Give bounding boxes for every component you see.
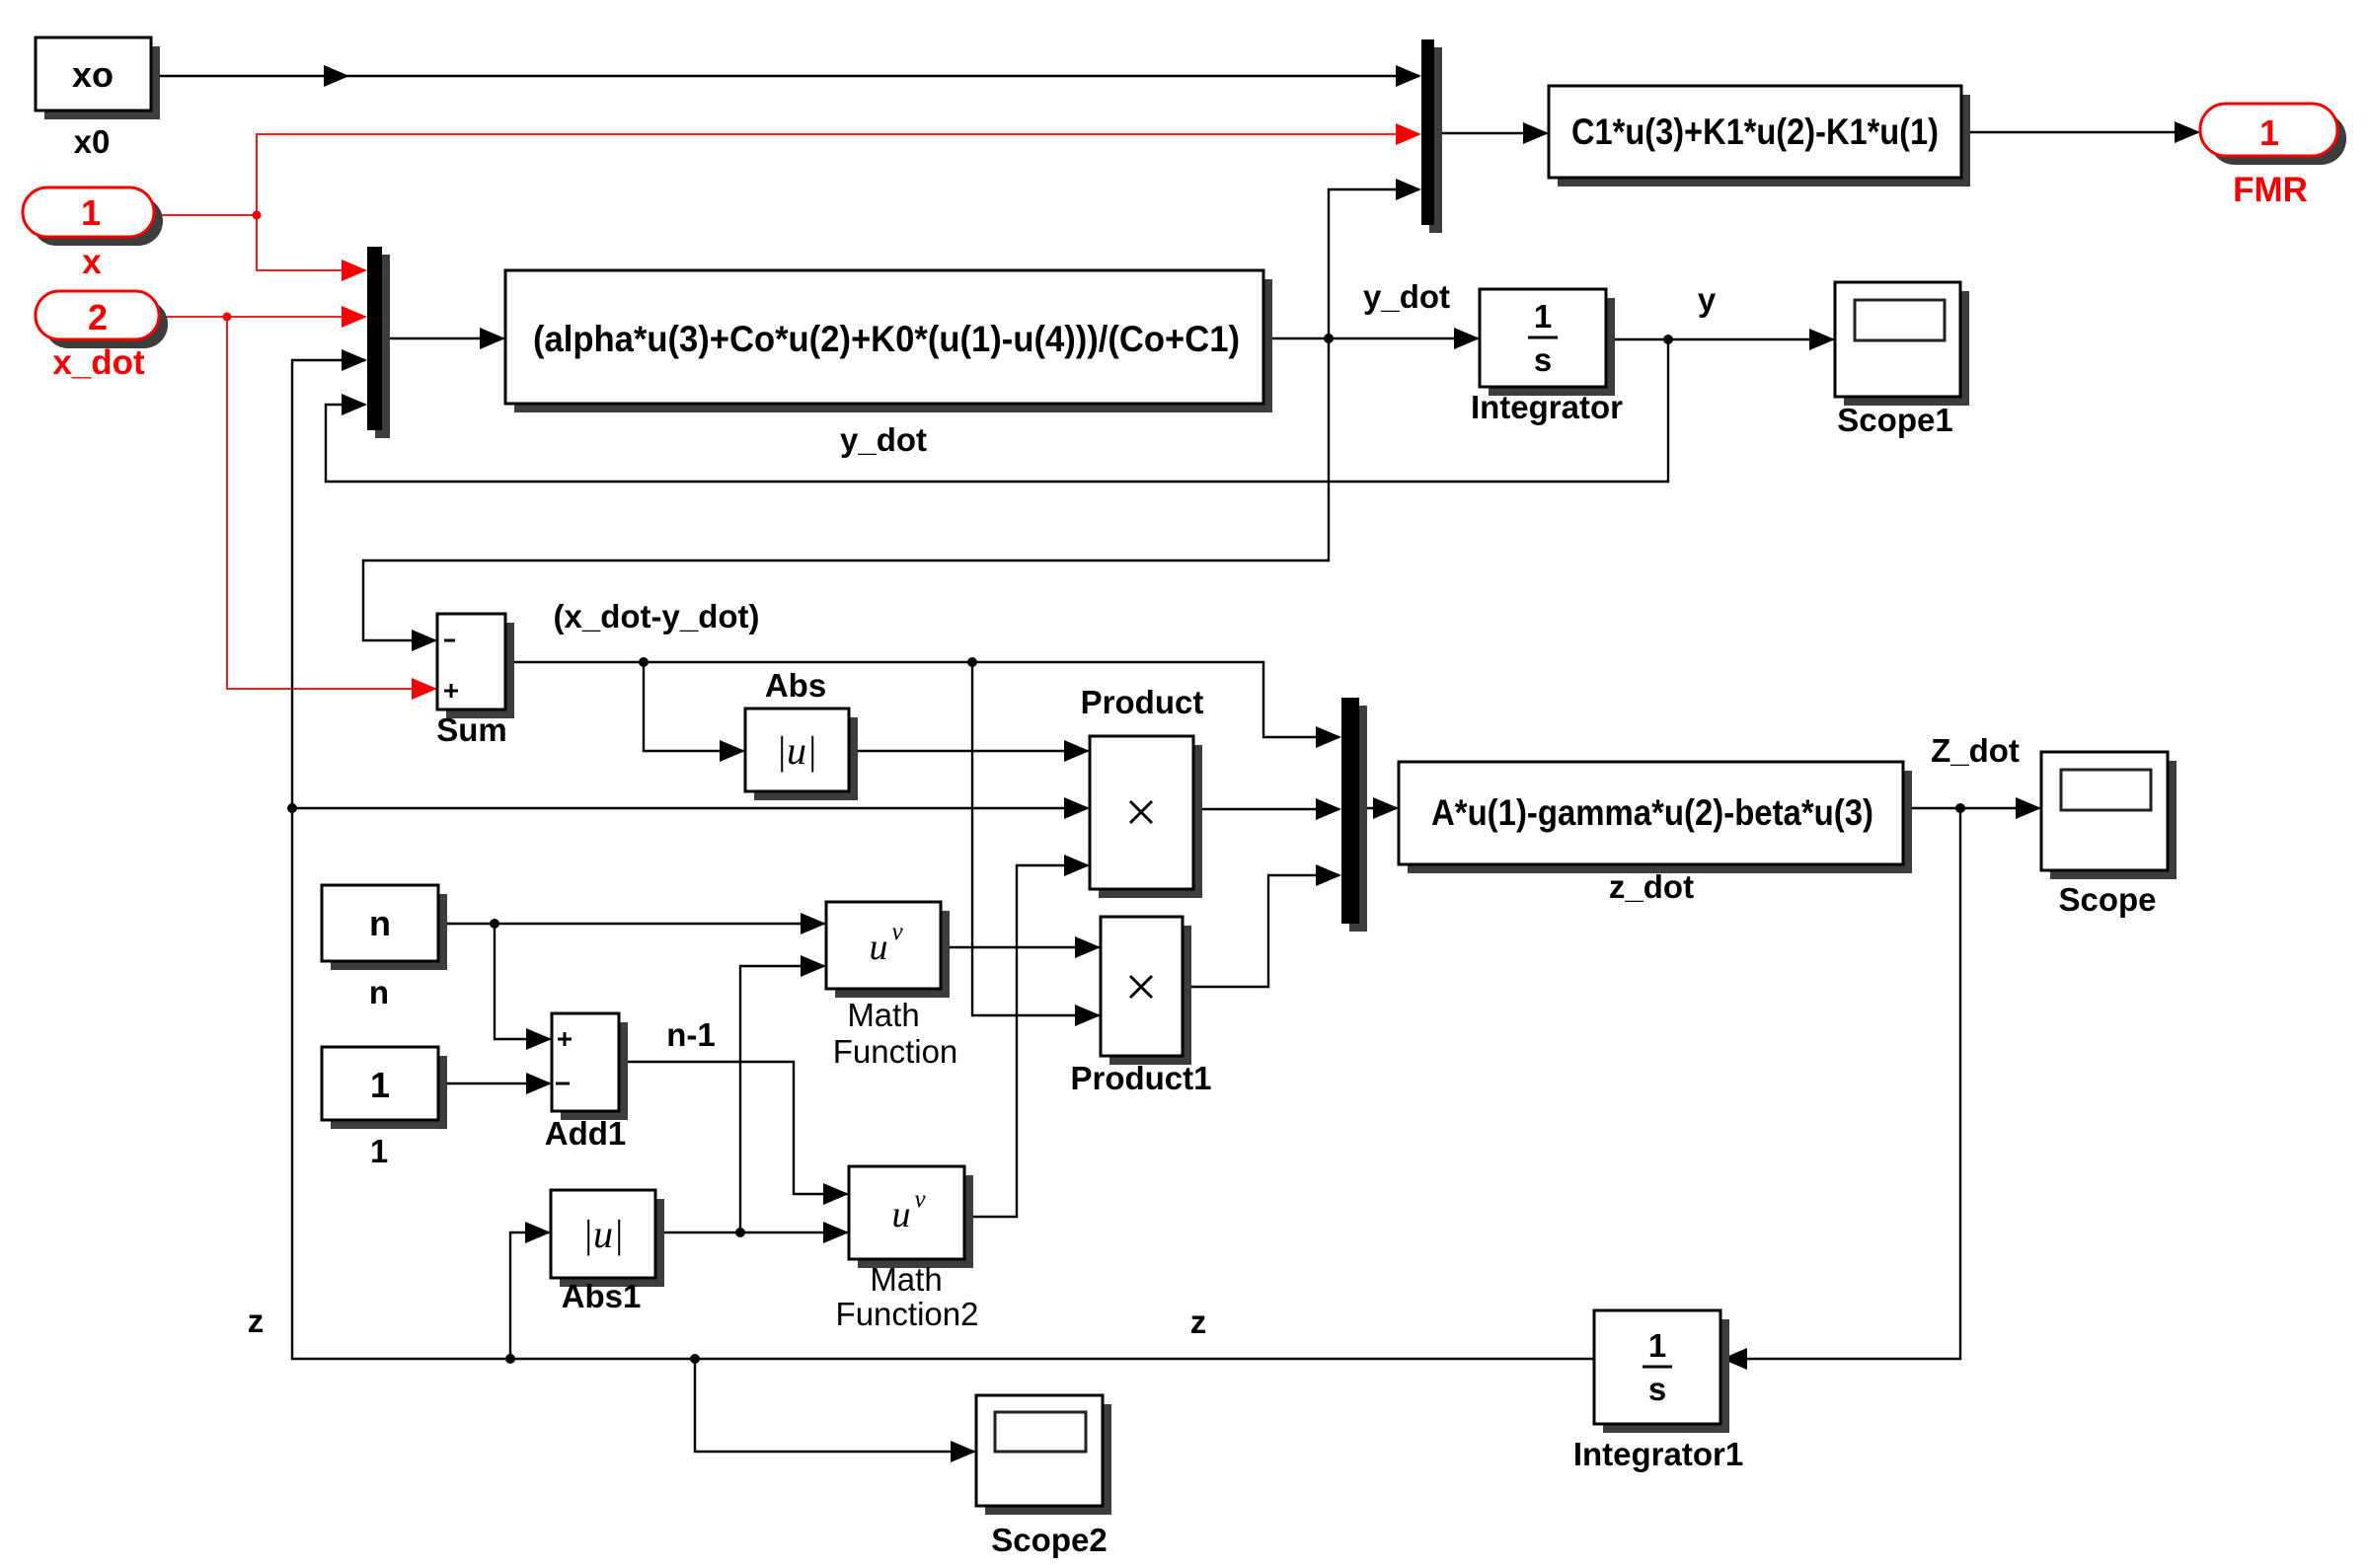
wire Mux2 output to z_dot expression block	[1359, 807, 1397, 809]
wire y_dot junction up to Mux top port3	[1329, 189, 1419, 338]
arrow xo wire into Mux top port1	[1396, 65, 1421, 87]
red arrow x_dot into Sum plus	[412, 678, 437, 700]
svg-text:1: 1	[1648, 1327, 1666, 1364]
wire Product1 output up to Mux2 port3	[1183, 875, 1339, 987]
arrow abs(z) into Math Function2 port2	[823, 1222, 849, 1243]
svg-text:z: z	[248, 1303, 265, 1339]
arrow y_dot into Mux top port3	[1396, 179, 1421, 200]
wire Abs1 junction up to Math Function port2	[740, 966, 824, 1232]
inport 2 (x_dot)	[36, 291, 168, 348]
arrow Math Function out into Product1 port1	[1075, 936, 1101, 958]
wire Add1 output n-1 to Math Function2 port1	[619, 1062, 847, 1194]
svg-text:n: n	[369, 903, 391, 943]
wire z junction right to Product port2	[292, 807, 1088, 809]
math function block Math Function2	[849, 1166, 973, 1268]
wire x_dot junction to Mux1 port2	[227, 316, 365, 318]
scope block Scope1	[1835, 282, 1969, 406]
arrow y_dot into Integrator	[1454, 328, 1480, 349]
arrow Product out into Mux2 port2	[1316, 798, 1341, 820]
wire x_dot inport to junction	[159, 316, 227, 318]
arrow Mux1 output into y_dot block	[480, 328, 505, 349]
svg-text:y_dot: y_dot	[1363, 278, 1450, 315]
arrow into Product1 port2	[1075, 1005, 1101, 1026]
arrow Abs out into Product port1	[1064, 740, 1090, 762]
junction z to Product port2	[287, 803, 297, 813]
svg-text:Scope1: Scope1	[1837, 402, 1952, 438]
svg-text:Integrator1: Integrator1	[1573, 1436, 1743, 1472]
svg-text:v: v	[891, 919, 903, 945]
svg-text:Math: Math	[847, 997, 919, 1033]
junction abs(z) split	[735, 1228, 745, 1237]
junction y_dot split	[1324, 334, 1334, 343]
svg-text:z_dot: z_dot	[1609, 868, 1694, 905]
arrow into FMR outport	[2175, 121, 2200, 143]
arrow Mux top output into C1 block	[1523, 122, 1549, 144]
constant block xo	[36, 37, 160, 119]
svg-text:Add1: Add1	[545, 1115, 627, 1152]
constant block n	[322, 885, 447, 970]
wire z_dot block output to Scope	[1903, 807, 2039, 809]
wire Mux top output to C1 expression block	[1434, 132, 1547, 134]
svg-text:x: x	[82, 243, 102, 281]
wire xo to Mux top port1	[151, 75, 1419, 77]
svg-text:Scope2: Scope2	[991, 1522, 1107, 1558]
red arrow x into Mux1 port1	[342, 260, 367, 281]
svg-text:Abs: Abs	[765, 667, 826, 704]
svg-text:Integrator: Integrator	[1471, 389, 1623, 425]
wire y junction feedback to Mux1 port4	[326, 339, 1668, 482]
svg-text:y: y	[1698, 281, 1717, 318]
svg-text:|u|: |u|	[776, 728, 817, 773]
svg-text:1: 1	[1534, 298, 1552, 335]
expression block y_dot	[505, 270, 1272, 412]
wire z junction down to Scope2	[695, 1359, 974, 1452]
red junction x_dot split	[223, 313, 232, 322]
wire y_dot block output to Integrator	[1263, 337, 1478, 339]
arrow z into Abs1	[525, 1222, 551, 1243]
arrow z_dot into Scope	[2016, 797, 2041, 819]
product block Product1	[1101, 917, 1191, 1065]
svg-text:Math: Math	[870, 1261, 942, 1298]
svg-text:C1*u(3)+K1*u(2)-K1*u(1): C1*u(3)+K1*u(2)-K1*u(1)	[1571, 112, 1939, 152]
svg-text:Sum: Sum	[436, 711, 507, 748]
red arrow x_dot into Mux1 port2	[342, 306, 367, 328]
math function block Math Function	[826, 902, 950, 998]
arrow z into Scope2	[951, 1441, 976, 1462]
svg-text:Product1: Product1	[1070, 1060, 1211, 1096]
ARROWHEADS	[324, 65, 2200, 1462]
svg-text:y_dot: y_dot	[840, 421, 927, 458]
svg-text:z: z	[1190, 1304, 1207, 1340]
junction (x_dot-y_dot) to Abs	[639, 657, 649, 667]
wire Mux1 output to y_dot expression block	[382, 337, 503, 339]
arrow (x_dot-y_dot) into Abs	[720, 740, 745, 762]
svg-text:u: u	[892, 1194, 911, 1235]
wire n junction down to Add1 plus input	[495, 924, 550, 1039]
svg-text:Product: Product	[1081, 684, 1204, 720]
svg-text:n: n	[369, 974, 389, 1010]
arrow y into Mux1 port4	[342, 394, 367, 415]
arrow n into Add1 plus	[526, 1028, 552, 1050]
sum block Sum	[437, 614, 514, 718]
abs block Abs1	[551, 1190, 664, 1287]
inport 1 (x)	[23, 187, 163, 246]
arrow (x_dot-y_dot) into Mux2 port1	[1316, 726, 1341, 748]
wire Abs output to Product port1	[849, 750, 1088, 752]
sum block Add1	[552, 1013, 628, 1120]
arrow z into Mux1 port3	[342, 349, 367, 371]
expression block z_dot	[1399, 762, 1912, 873]
svg-text:1: 1	[370, 1065, 390, 1105]
junction z to Abs1	[505, 1354, 515, 1364]
scope block Scope	[2041, 752, 2177, 879]
wire junction down to Abs input	[644, 662, 743, 751]
wire y_dot junction down and left to Sum minus input	[363, 338, 1329, 640]
svg-text:n-1: n-1	[666, 1016, 716, 1053]
svg-text:Z_dot: Z_dot	[1931, 732, 2020, 769]
integrator block Integrator	[1480, 289, 1615, 396]
arrow y into Scope1	[1809, 329, 1835, 350]
mux Mux2 (feeds z_dot block)	[1341, 698, 1367, 932]
arrow n into Math Function port1	[801, 913, 826, 934]
red junction x split	[253, 211, 262, 220]
svg-text:x0: x0	[74, 123, 111, 160]
junction z_dot split	[1955, 803, 1965, 813]
red arrow x into Mux top port2	[1396, 123, 1421, 145]
expression block C1*u(3)+K1*u(2)-K1*u(1)	[1549, 86, 1970, 187]
wire x inport to junction	[154, 214, 257, 216]
mux Mux (top, feeds C1 block)	[1421, 39, 1442, 233]
scope block Scope2	[976, 1395, 1111, 1515]
arrow z into Product port2	[1064, 797, 1090, 819]
wire Abs1 output to Math Function2 port2	[655, 1232, 847, 1233]
svg-text:v: v	[914, 1186, 926, 1213]
arrow Mux2 out into z_dot block	[1373, 797, 1399, 819]
wire z_dot junction down to Integrator1 input	[1723, 808, 1960, 1359]
wire Math Function output to Product1 port1	[941, 946, 1099, 948]
svg-text:1: 1	[81, 192, 101, 233]
wire Integrator output y to Scope1	[1606, 338, 1833, 340]
svg-text:(x_dot-y_dot): (x_dot-y_dot)	[554, 598, 760, 635]
wire Product output to Mux2 port2	[1193, 808, 1339, 810]
svg-text:1: 1	[2259, 112, 2279, 153]
svg-text:Scope: Scope	[2058, 881, 2156, 918]
arrow y_dot loop into Sum minus	[412, 630, 437, 651]
junction y split	[1663, 335, 1673, 344]
constant block 1	[322, 1047, 447, 1129]
svg-text:Abs1: Abs1	[562, 1278, 642, 1314]
svg-text:Function: Function	[833, 1033, 958, 1070]
arrow abs(z) into Math Function port2	[801, 955, 826, 977]
junction z to Scope2	[690, 1354, 700, 1364]
svg-text:xo: xo	[72, 54, 114, 95]
wire x_dot junction down to Sum plus input	[227, 317, 435, 689]
svg-text:Function2: Function2	[836, 1296, 979, 1332]
arrow n-1 into Math Function2 port1	[823, 1183, 849, 1205]
integrator block Integrator1	[1594, 1310, 1729, 1433]
junction (x_dot-y_dot) to Product1	[967, 657, 977, 667]
junction n split	[490, 919, 499, 929]
arrow z_dot into Integrator1 right side	[1721, 1348, 1747, 1370]
svg-text:|u|: |u|	[582, 1212, 624, 1256]
svg-text:FMR: FMR	[2233, 171, 2308, 209]
wire constant 1 block to Add1 minus input	[438, 1083, 550, 1084]
wire z junction up to Abs1 input	[510, 1232, 549, 1359]
svg-text:1: 1	[370, 1133, 388, 1169]
wire junction down to Product1 port2	[972, 661, 1099, 1015]
svg-text:(alpha*u(3)+Co*u(2)+K0*(u(1)-u: (alpha*u(3)+Co*u(2)+K0*(u(1)-u(4)))/(Co+…	[533, 319, 1240, 359]
wire z from Integrator1 output left to Mux1 port3	[292, 360, 1594, 1359]
svg-text:x_dot: x_dot	[52, 343, 145, 382]
wire x junction up to Mux top port2	[257, 134, 1419, 215]
product block Product	[1090, 736, 1202, 898]
wire Sum output (x_dot-y_dot) to corner and Mux2 port1	[505, 662, 1339, 737]
arrow mid of xo wire	[324, 65, 349, 87]
arrow MathFunction2 out into Product port3	[1064, 855, 1090, 876]
mux Mux1 (feeds y_dot block)	[367, 247, 390, 438]
wire x junction down to Mux1 port1	[257, 215, 365, 270]
svg-text:u: u	[870, 927, 888, 968]
wire Math Function2 output up to Product port3	[964, 865, 1088, 1217]
wire C1 expression block to FMR outport	[1961, 131, 2198, 133]
outport 1 (FMR)	[2200, 104, 2346, 165]
svg-text:2: 2	[88, 297, 108, 337]
svg-text:A*u(1)-gamma*u(2)-beta*u(3): A*u(1)-gamma*u(2)-beta*u(3)	[1431, 792, 1873, 833]
abs block Abs	[745, 709, 858, 800]
svg-text:s: s	[1648, 1371, 1666, 1407]
arrow Product1 out into Mux2 port3	[1316, 864, 1341, 886]
arrow 1 into Add1 minus	[526, 1073, 552, 1094]
svg-text:s: s	[1534, 341, 1552, 378]
wire n block output to Math Function port1	[438, 923, 824, 925]
